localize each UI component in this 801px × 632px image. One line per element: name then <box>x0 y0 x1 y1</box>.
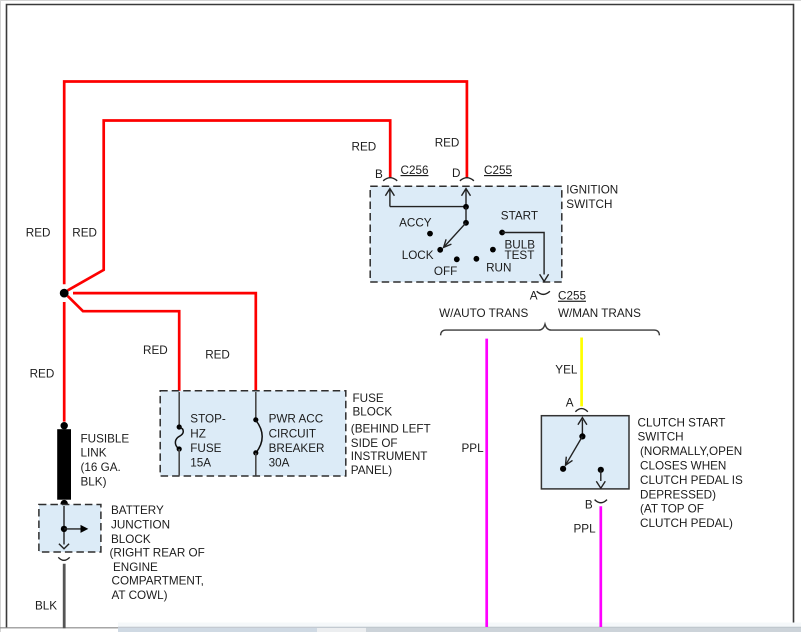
battery junction arrow right (filled) <box>64 525 88 533</box>
wire RED: splice to ignition connector B (C256) <box>68 121 391 291</box>
ignition position dot RUN <box>474 256 480 262</box>
bottom scrollbar strip <box>118 623 801 632</box>
ignition wire START to pin A with arrowhead <box>502 233 548 282</box>
ignition position dot ACCY <box>427 231 433 237</box>
svg-text:PANEL): PANEL) <box>351 464 392 477</box>
battery junction internal wire <box>63 506 65 545</box>
wire RED: splice to pwr acc circuit breaker <box>73 293 256 391</box>
battery junction internal node <box>61 526 67 532</box>
circuit breaker CB1 top terminal dot <box>253 417 258 422</box>
fuse block box <box>160 391 346 476</box>
ignition wire horizontal feed <box>390 206 466 208</box>
svg-text:PPL: PPL <box>574 523 597 536</box>
svg-text:RED: RED <box>143 344 168 357</box>
svg-text:CLUTCH PEDAL IS: CLUTCH PEDAL IS <box>640 474 743 487</box>
svg-text:CLUTCH START: CLUTCH START <box>638 416 726 429</box>
svg-text:RED: RED <box>205 349 230 362</box>
connector pin B arc <box>383 178 397 181</box>
svg-text:LINK: LINK <box>81 447 107 460</box>
clutch switch contact dot (lower left) <box>560 466 566 472</box>
svg-text:BLOCK: BLOCK <box>353 406 393 419</box>
clutch switch contact dot (right) <box>598 467 604 473</box>
ignition rotor pivot dot <box>463 220 469 226</box>
connector pin A cup (below ignition switch) <box>537 291 550 294</box>
svg-text:CLOSES WHEN: CLOSES WHEN <box>640 460 726 473</box>
split brace <box>441 324 660 335</box>
svg-text:RED: RED <box>72 227 97 240</box>
svg-text:B: B <box>585 499 593 512</box>
svg-text:AT COWL): AT COWL) <box>112 589 168 602</box>
fuse F1 lead bottom <box>178 449 180 476</box>
circuit breaker CB1 lead bottom <box>255 453 257 476</box>
svg-text:D: D <box>452 167 460 180</box>
battery junction block box <box>39 505 101 553</box>
clutch start switch box <box>541 416 629 489</box>
svg-text:BLK: BLK <box>35 600 57 613</box>
svg-text:HZ: HZ <box>190 427 206 440</box>
svg-text:RED: RED <box>30 368 55 381</box>
clutch switch rotor arrow <box>566 436 583 465</box>
fuse F1 element (STOP-HZ FUSE 15A) <box>175 427 183 449</box>
svg-text:BREAKER: BREAKER <box>269 442 325 455</box>
clutch switch wire down with arrowhead <box>596 470 605 488</box>
svg-text:C255: C255 <box>558 290 586 303</box>
svg-text:A: A <box>566 397 574 410</box>
svg-text:BATTERY: BATTERY <box>111 504 164 517</box>
battery junction arrow down (open) <box>59 544 69 549</box>
svg-text:30A: 30A <box>269 457 290 470</box>
svg-text:ENGINE: ENGINE <box>113 561 158 574</box>
svg-text:BLOCK: BLOCK <box>111 533 151 546</box>
frame bottom-left segment <box>0 627 118 629</box>
svg-text:RED: RED <box>352 141 377 154</box>
battery junction connector cup <box>58 557 69 560</box>
fusible link top terminal dot <box>60 422 67 429</box>
clutch switch pivot dot <box>579 433 585 439</box>
svg-text:SWITCH: SWITCH <box>638 431 684 444</box>
svg-text:FUSE: FUSE <box>353 392 384 405</box>
svg-text:CIRCUIT: CIRCUIT <box>269 427 316 440</box>
svg-text:CLUTCH PEDAL): CLUTCH PEDAL) <box>640 517 733 530</box>
svg-text:SIDE OF: SIDE OF <box>351 437 398 450</box>
svg-text:LOCK: LOCK <box>402 249 434 262</box>
svg-text:YEL: YEL <box>555 364 578 377</box>
ignition feed node <box>463 204 469 210</box>
fuse F1 top terminal dot <box>177 424 182 429</box>
ignition wire node to rotor <box>465 207 467 223</box>
ignition position dot START <box>499 230 505 236</box>
svg-text:(BEHIND LEFT: (BEHIND LEFT <box>351 422 431 435</box>
svg-text:STOP-: STOP- <box>190 413 226 426</box>
wire RED: splice to fusible link <box>63 302 66 422</box>
svg-text:B: B <box>375 168 383 181</box>
fusible link body <box>57 429 71 500</box>
svg-text:RUN: RUN <box>486 262 511 275</box>
svg-text:(NORMALLY,OPEN: (NORMALLY,OPEN <box>640 445 742 458</box>
svg-text:INSTRUMENT: INSTRUMENT <box>351 450 428 463</box>
svg-text:JUNCTION: JUNCTION <box>111 519 170 532</box>
svg-text:W/MAN TRANS: W/MAN TRANS <box>558 307 641 320</box>
clutch switch wire up with arrowhead <box>578 418 587 437</box>
fuse F1 lead top <box>178 392 180 427</box>
svg-text:(RIGHT REAR OF: (RIGHT REAR OF <box>110 547 205 560</box>
circuit breaker CB1 bottom terminal dot <box>253 450 258 455</box>
svg-text:SWITCH: SWITCH <box>566 198 612 211</box>
circuit breaker CB1 element (PWR ACC 30A) <box>256 420 262 453</box>
svg-text:DEPRESSED): DEPRESSED) <box>640 488 716 501</box>
ignition position dot OFF <box>454 256 460 262</box>
svg-text:BLK): BLK) <box>81 476 107 489</box>
svg-text:COMPARTMENT,: COMPARTMENT, <box>112 575 204 588</box>
svg-text:W/AUTO TRANS: W/AUTO TRANS <box>439 307 528 320</box>
circuit breaker CB1 lead top <box>255 392 257 420</box>
svg-text:(16 GA.: (16 GA. <box>81 461 121 474</box>
wire PPL (below clutch switch) <box>599 506 602 627</box>
wire PPL (w/auto trans) <box>485 339 488 627</box>
svg-text:(AT TOP OF: (AT TOP OF <box>640 503 704 516</box>
wire YEL (w/man trans) <box>580 338 583 407</box>
ignition wire to pin B with arrowhead <box>385 189 394 207</box>
splice node S1 <box>60 289 69 298</box>
svg-text:15A: 15A <box>190 457 211 470</box>
svg-text:PWR ACC: PWR ACC <box>269 413 324 426</box>
fusible link bottom terminal dot <box>60 500 67 507</box>
clutch switch connector pin B cup <box>595 500 607 503</box>
connector pin D arc <box>460 178 474 181</box>
ignition position dot LOCK <box>437 247 443 253</box>
ignition switch box <box>370 186 562 282</box>
svg-text:IGNITION: IGNITION <box>566 183 618 196</box>
svg-text:OFF: OFF <box>434 265 457 278</box>
wire RED: splice to stop-hz fuse <box>68 296 180 392</box>
wire BLK (battery ground lead) <box>63 564 66 629</box>
svg-text:PPL: PPL <box>462 442 485 455</box>
ignition wire to pin D with arrowhead <box>462 189 471 207</box>
svg-text:START: START <box>501 210 538 223</box>
svg-text:A: A <box>530 290 538 303</box>
svg-text:FUSIBLE: FUSIBLE <box>81 432 130 445</box>
svg-text:TEST: TEST <box>505 249 535 262</box>
svg-text:RED: RED <box>435 136 460 149</box>
svg-text:RED: RED <box>26 227 51 240</box>
svg-text:C256: C256 <box>401 164 429 177</box>
ignition position dot BULB TEST <box>490 247 496 253</box>
svg-text:FUSE: FUSE <box>190 442 221 455</box>
svg-text:C255: C255 <box>484 164 512 177</box>
svg-text:ACCY: ACCY <box>399 217 432 230</box>
wire RED: splice to ignition connector D (C255) <box>64 82 467 285</box>
clutch switch connector pin A arc <box>575 409 587 412</box>
ignition rotor arrow to LOCK <box>444 223 466 248</box>
fuse F1 bottom terminal dot <box>177 446 182 451</box>
